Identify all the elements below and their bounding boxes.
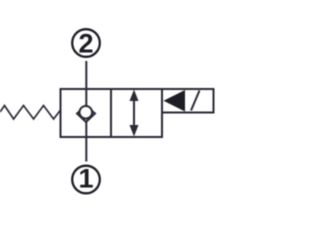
svg-text:2: 2 — [78, 28, 93, 58]
port 2 circle — [72, 29, 100, 57]
arrowhead down — [130, 125, 139, 137]
flow path arrow (right position) stem — [133, 94, 135, 132]
position divider — [110, 89, 112, 137]
solenoid slash — [191, 91, 200, 111]
check valve ball (circle) — [80, 106, 93, 119]
check valve seat (diamond) — [77, 106, 95, 123]
svg-text:1: 1 — [78, 164, 93, 194]
arrowhead up — [130, 90, 139, 102]
spring (return spring, left side) — [0, 106, 61, 120]
solenoid triangle — [164, 90, 186, 112]
valve body (2-position envelope) — [61, 89, 163, 137]
wire port 2 to valve — [85, 61, 87, 108]
solenoid box — [162, 89, 214, 113]
wire valve to port 1 — [85, 118, 87, 162]
port 1 circle — [72, 166, 100, 194]
